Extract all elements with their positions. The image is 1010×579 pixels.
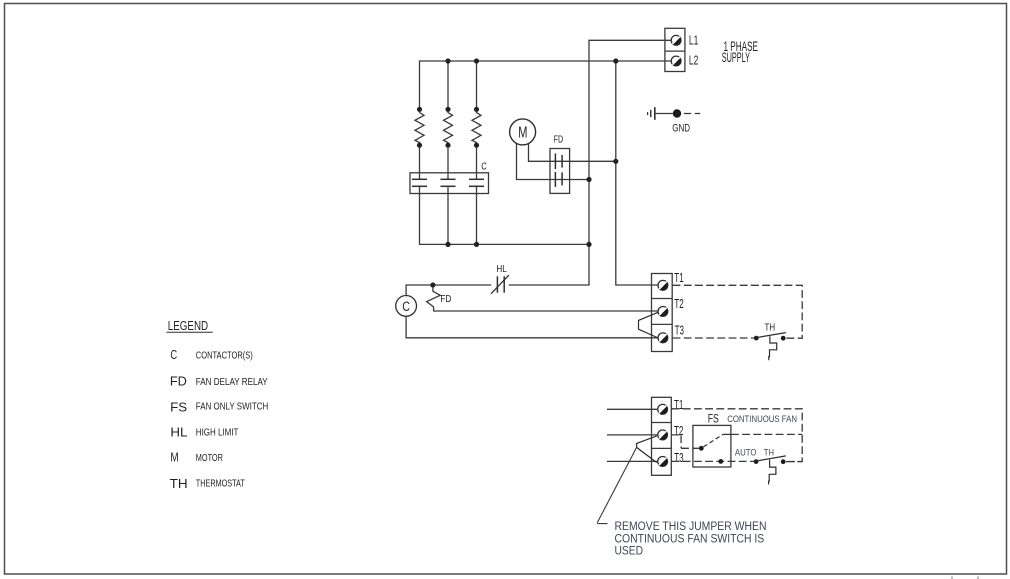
FD contact upper xyxy=(555,154,562,170)
contactor contact pole 3 xyxy=(469,179,484,244)
terminal block L1/L2 supply xyxy=(665,28,685,71)
node top rail junction xyxy=(613,58,618,63)
dashed wire T3 upper to thermostat xyxy=(673,337,754,339)
terminal screw T3 upper xyxy=(658,333,668,343)
heating element resistor R3 xyxy=(472,58,481,179)
node bottom rail junctions xyxy=(445,242,450,247)
svg-text:FS: FS xyxy=(708,414,719,426)
jumper T2-T3 upper xyxy=(639,312,659,338)
svg-text:FS: FS xyxy=(170,400,187,414)
dashed stub TH lower right xyxy=(786,461,802,463)
svg-text:TH: TH xyxy=(765,322,776,334)
contactor C box xyxy=(410,173,489,194)
fan delay heater FD element xyxy=(427,288,659,311)
contactor coil C xyxy=(396,296,417,317)
wire motor left lead to FD lower contact xyxy=(517,143,590,179)
svg-text:SUPPLY: SUPPLY xyxy=(722,50,750,65)
svg-text:LEGEND: LEGEND xyxy=(168,318,208,333)
node control junction xyxy=(430,282,435,287)
dashed wire T3 lower auto line xyxy=(672,460,754,462)
legend row FS xyxy=(170,400,268,414)
svg-text:FD: FD xyxy=(170,375,187,389)
legend row HL xyxy=(170,425,239,439)
label 1 PHASE SUPPLY xyxy=(722,39,758,65)
thermostat TH upper xyxy=(754,333,786,361)
svg-text:MOTOR: MOTOR xyxy=(196,453,223,464)
terminal screw T3 lower xyxy=(658,457,668,467)
wire FS to continuous-fan line xyxy=(723,433,731,435)
svg-text:GND: GND xyxy=(672,122,690,134)
FD contact lower xyxy=(555,172,562,187)
dashed wire continuous fan xyxy=(731,433,802,435)
svg-text:T2: T2 xyxy=(674,297,683,311)
svg-text:FAN DELAY RELAY: FAN DELAY RELAY xyxy=(196,377,268,388)
contactor contact pole 2 xyxy=(441,179,456,244)
fan delay relay FD box xyxy=(550,149,570,194)
svg-text:FAN ONLY SWITCH: FAN ONLY SWITCH xyxy=(196,402,268,413)
legend row FD xyxy=(170,375,268,389)
jumper T2-T3 lower xyxy=(637,436,657,463)
legend title xyxy=(166,318,212,333)
node FD lower wire junction xyxy=(586,177,591,182)
terminal screw T1 lower xyxy=(658,404,668,414)
heating element resistor R1 xyxy=(415,107,424,179)
terminal screw T2 lower xyxy=(658,430,668,440)
ground node dot xyxy=(673,109,681,117)
leader line to note xyxy=(597,447,636,523)
thermostat TH lower xyxy=(754,456,786,485)
svg-text:CONTACTOR(S): CONTACTOR(S) xyxy=(196,351,253,362)
svg-text:FD: FD xyxy=(440,294,451,305)
svg-text:T1: T1 xyxy=(674,398,683,412)
terminal screw L2 xyxy=(671,56,681,66)
node auto contact xyxy=(718,459,723,464)
ground dashed stub xyxy=(684,113,700,115)
wire motor right lead to FD upper contact xyxy=(529,143,616,161)
terminal screw T2 upper xyxy=(658,307,668,317)
terminal block lower T1 T2 T3 xyxy=(652,397,672,475)
cropped marks bottom right xyxy=(952,577,978,579)
svg-text:AUTO: AUTO xyxy=(735,447,757,457)
dashed wire T1 upper to thermostat xyxy=(673,285,803,338)
svg-text:FD: FD xyxy=(554,135,564,146)
svg-text:T1: T1 xyxy=(674,271,683,285)
svg-text:L1: L1 xyxy=(689,32,698,47)
svg-text:TH: TH xyxy=(170,477,188,491)
svg-text:T2: T2 xyxy=(674,424,683,438)
FS dashed blade xyxy=(703,434,723,447)
note text xyxy=(615,519,767,558)
legend row TH xyxy=(170,477,246,491)
legend row C xyxy=(170,348,252,362)
svg-text:HIGH LIMIT: HIGH LIMIT xyxy=(196,427,239,438)
svg-text:T3: T3 xyxy=(674,451,683,465)
svg-text:HL: HL xyxy=(496,263,507,275)
svg-text:L2: L2 xyxy=(689,53,698,68)
FS common node xyxy=(699,446,704,451)
wire stub T2 lower xyxy=(607,434,658,436)
contactor contact pole 1 xyxy=(412,179,589,244)
wire branch vertical to T1 xyxy=(616,61,658,285)
terminal block upper T1 T2 T3 xyxy=(652,274,673,352)
svg-text:C: C xyxy=(402,299,410,314)
dashed wire T2 lower to FS xyxy=(672,435,699,448)
svg-text:T3: T3 xyxy=(675,323,684,337)
wire L2 feed: left along top rail to first element xyxy=(420,61,672,113)
wire L1 feed: left then down then to HL right side xyxy=(509,40,672,285)
wire stub T1 lower xyxy=(607,408,658,410)
svg-text:USED: USED xyxy=(615,544,644,558)
wire coil top to HL left side xyxy=(406,285,491,296)
fan only switch FS box xyxy=(693,425,731,467)
terminal screw T1 upper xyxy=(658,280,668,290)
svg-text:M: M xyxy=(518,125,527,142)
ground symbol xyxy=(648,107,673,120)
heating element resistor R2 xyxy=(444,58,453,179)
terminal screw L1 xyxy=(671,35,681,45)
motor M xyxy=(510,119,536,145)
svg-text:M: M xyxy=(170,451,178,465)
node FD upper wire junction xyxy=(613,159,618,164)
svg-text:C: C xyxy=(481,161,487,172)
svg-text:HL: HL xyxy=(170,425,187,439)
high limit HL switch xyxy=(491,275,509,294)
svg-text:THERMOSTAT: THERMOSTAT xyxy=(196,479,245,490)
svg-text:CONTINUOUS FAN: CONTINUOUS FAN xyxy=(727,414,797,424)
legend row M xyxy=(170,451,223,465)
wire stub T3 lower xyxy=(607,460,658,462)
svg-text:TH: TH xyxy=(764,447,774,457)
svg-text:C: C xyxy=(170,348,177,362)
wire coil bottom to T3 xyxy=(406,316,658,338)
dashed wire T1 lower loop xyxy=(672,409,803,462)
